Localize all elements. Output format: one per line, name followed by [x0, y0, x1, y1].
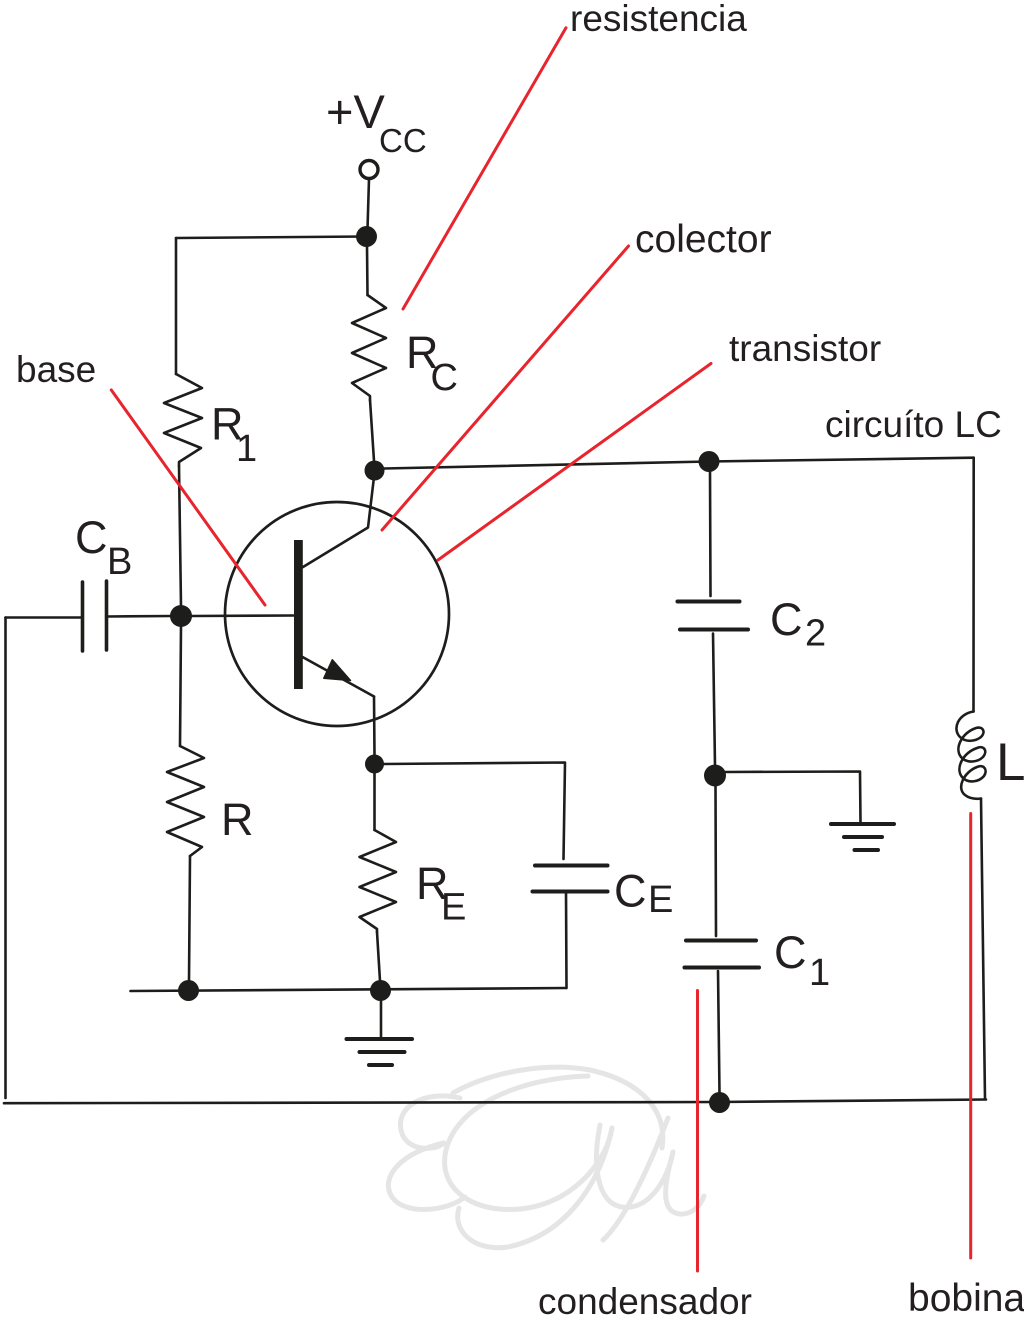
wire bottom long rail — [4, 1100, 986, 1104]
transistor Q1 circle — [225, 502, 449, 726]
node J3 collector — [365, 461, 385, 481]
capacitor CB right wire — [108, 615, 172, 618]
wire emitter to J5 — [373, 697, 376, 756]
wire right riser upper — [972, 458, 975, 712]
wire J9 to ground 2 — [725, 772, 861, 823]
wire collector node to LC rail — [384, 458, 974, 469]
wire base node to transistor — [191, 614, 294, 617]
svg-text:resistencia: resistencia — [570, 0, 747, 39]
red line bobina — [969, 814, 972, 1259]
transistor emitter arrow — [324, 660, 351, 681]
wire J9 to C1 — [714, 785, 717, 936]
wire L to bottom corner — [981, 799, 985, 1100]
svg-text:C: C — [614, 866, 647, 917]
wire R branch from base node — [180, 626, 181, 746]
svg-text:transistor: transistor — [729, 328, 881, 369]
red line colector — [382, 246, 629, 530]
svg-text:C: C — [75, 512, 108, 563]
resistor R — [167, 746, 204, 856]
red line transistor — [438, 364, 711, 561]
wire J5 to RE — [373, 773, 376, 830]
Vcc terminal circle — [360, 161, 378, 179]
svg-text:C: C — [774, 927, 807, 978]
ground 2 — [831, 822, 894, 826]
wire C1 to bottom rail — [718, 971, 720, 1093]
svg-text:1: 1 — [236, 428, 257, 470]
resistor RE — [360, 830, 397, 932]
svg-text:B: B — [107, 541, 132, 583]
node J8 bottom rail — [709, 1092, 730, 1113]
transistor collector lead — [303, 477, 374, 567]
node J5 emitter — [365, 755, 384, 774]
capacitor CE plates — [535, 864, 608, 868]
capacitor C2 plates — [678, 600, 740, 604]
capacitor C1 plates — [686, 939, 756, 943]
svg-text:L: L — [996, 733, 1024, 792]
wire J5 to CE corner — [384, 763, 565, 860]
svg-text:E: E — [648, 879, 673, 921]
svg-text:bobina: bobina — [908, 1277, 1024, 1318]
svg-text:E: E — [441, 887, 466, 929]
transistor Q1 base bar — [294, 540, 303, 689]
node J2 base — [170, 605, 192, 627]
resistor R1 — [164, 374, 202, 466]
wire R1 to base node — [179, 466, 181, 606]
node J1 Vcc rail — [356, 226, 377, 247]
red annotation lines — [111, 28, 970, 1271]
inductor L coil — [956, 712, 985, 799]
svg-text:circuíto LC: circuíto LC — [825, 404, 1002, 445]
svg-text:condensador: condensador — [538, 1281, 752, 1318]
red line condensador — [696, 991, 699, 1272]
wire J4 to C2 — [709, 471, 712, 596]
node J7 R bottom — [178, 980, 199, 1001]
wire top rail J1 to R1 branch — [176, 237, 366, 239]
wire C2 to J9 — [713, 634, 715, 767]
svg-text:C: C — [770, 594, 803, 645]
wire J1 to RC — [366, 246, 369, 295]
wire internal bottom rail — [131, 988, 567, 991]
svg-text:1: 1 — [809, 952, 830, 994]
svg-text:C: C — [431, 357, 458, 399]
svg-text:+V: +V — [326, 85, 385, 138]
ground 1 — [347, 1037, 413, 1041]
capacitor CB plates — [81, 582, 85, 651]
svg-text:R: R — [221, 794, 254, 845]
wire R to bottom rail — [189, 856, 190, 981]
wire RC to collector node J3 — [370, 400, 374, 461]
wires and components (black) — [4, 161, 986, 1104]
wire Vcc to J1 — [368, 179, 370, 229]
wire CE to bottom rail — [565, 892, 568, 989]
svg-text:2: 2 — [805, 613, 826, 655]
red line base — [111, 390, 265, 605]
svg-text:CC: CC — [379, 122, 427, 159]
node J6 RE bottom — [370, 980, 391, 1001]
transistor emitter lead — [303, 657, 375, 697]
resistor RC — [352, 295, 386, 400]
svg-text:colector: colector — [635, 218, 772, 261]
svg-text:base: base — [16, 349, 96, 390]
red line resistencia — [403, 28, 566, 309]
wire J6 to ground 1 — [380, 1000, 383, 1039]
wire R1 branch vertical — [175, 238, 178, 374]
node J9 C1-C2 — [704, 765, 726, 787]
node J4 LC top — [699, 451, 720, 472]
watermark EGU monogram — [388, 1067, 704, 1247]
wire RE to bottom rail — [377, 932, 380, 981]
wire left riser — [4, 618, 7, 1099]
capacitor CB left wire — [6, 616, 82, 619]
